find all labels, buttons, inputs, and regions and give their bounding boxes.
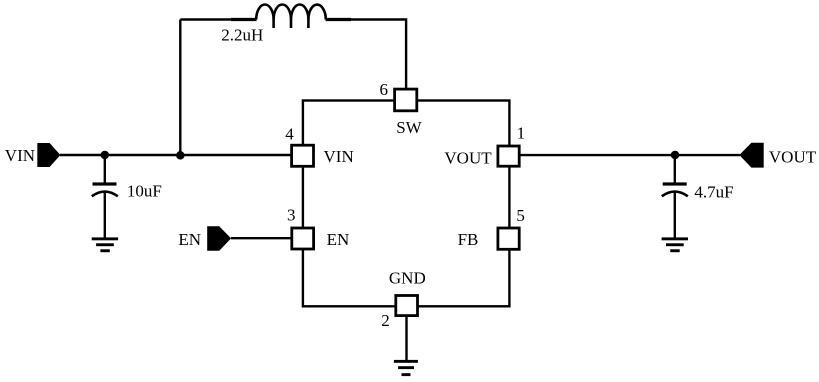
svg-text:2.2uH: 2.2uH	[221, 26, 263, 45]
svg-text:4.7uF: 4.7uF	[694, 182, 733, 201]
svg-text:VIN: VIN	[5, 146, 35, 165]
svg-text:5: 5	[516, 206, 525, 225]
svg-text:VOUT: VOUT	[444, 148, 492, 167]
svg-text:3: 3	[287, 206, 296, 225]
svg-text:VOUT: VOUT	[769, 148, 817, 167]
svg-text:6: 6	[380, 80, 389, 99]
svg-text:GND: GND	[389, 269, 426, 288]
svg-text:10uF: 10uF	[127, 181, 162, 200]
svg-text:EN: EN	[178, 230, 201, 249]
svg-text:4: 4	[285, 125, 294, 144]
svg-text:EN: EN	[327, 230, 350, 249]
svg-text:FB: FB	[458, 230, 479, 249]
svg-text:SW: SW	[396, 118, 422, 137]
svg-text:VIN: VIN	[324, 147, 354, 166]
svg-text:1: 1	[517, 124, 526, 143]
svg-text:2: 2	[381, 311, 390, 330]
